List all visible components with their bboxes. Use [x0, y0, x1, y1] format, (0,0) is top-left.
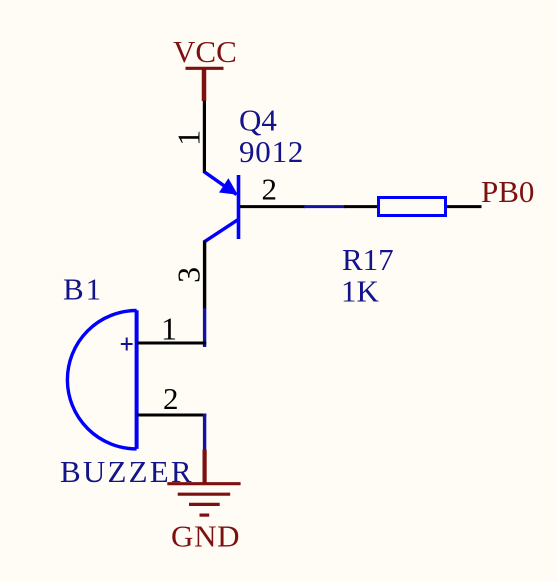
resistor R17 — [379, 198, 446, 216]
GND bar 3 — [189, 503, 220, 506]
plus polarity mark — [121, 338, 133, 351]
svg-text:B1: B1 — [63, 272, 103, 307]
svg-text:3: 3 — [171, 267, 207, 283]
svg-text:GND: GND — [171, 519, 240, 554]
GND bar 2 — [178, 493, 231, 496]
svg-text:2: 2 — [262, 172, 278, 207]
base bar — [237, 175, 241, 239]
wire (net) collector to buzzer pin 1 — [203, 308, 206, 347]
svg-text:9012: 9012 — [239, 134, 304, 169]
pin wire buzzer 1 — [137, 342, 206, 345]
svg-text:R17: R17 — [342, 242, 394, 277]
emitter arrow — [219, 178, 238, 195]
svg-text:1: 1 — [171, 130, 207, 146]
pin wire Q4 base — [240, 205, 305, 208]
GND bar 1 — [167, 482, 240, 485]
wire (net) base to R17 — [304, 205, 345, 208]
collector lead — [204, 219, 238, 242]
transistor Q4 (PNP 9012) — [204, 172, 238, 242]
VCC stem — [202, 68, 207, 101]
GND bar 4 — [200, 513, 210, 516]
wire (net) buzzer pin 2 to GND — [203, 414, 206, 451]
svg-text:2: 2 — [163, 381, 179, 416]
buzzer arc — [67, 311, 136, 449]
power symbol GND — [167, 450, 240, 516]
VCC bar — [186, 67, 224, 70]
pin wire buzzer 2 — [137, 414, 206, 417]
svg-text:VCC: VCC — [173, 34, 237, 69]
pin wire R17 right — [447, 205, 482, 208]
emitter lead — [204, 172, 236, 195]
GND stem — [203, 450, 207, 485]
power symbol VCC — [186, 68, 224, 101]
wire Q4 collector down (pin segment) — [203, 241, 206, 310]
svg-text:1: 1 — [161, 310, 177, 346]
svg-text:PB0: PB0 — [481, 174, 534, 209]
svg-text:1K: 1K — [341, 274, 380, 309]
pin wire R17 left — [344, 205, 377, 208]
buzzer B1 body — [67, 310, 136, 449]
wire VCC to Q4 emitter — [203, 101, 206, 173]
buzzer flat edge — [135, 310, 139, 449]
svg-text:Q4: Q4 — [239, 103, 277, 138]
